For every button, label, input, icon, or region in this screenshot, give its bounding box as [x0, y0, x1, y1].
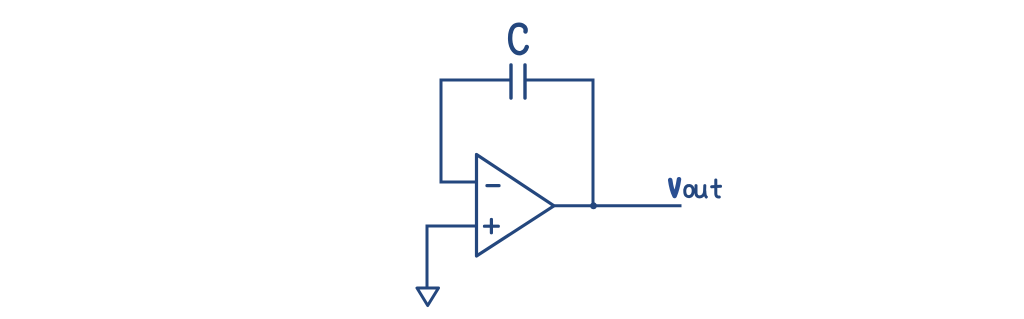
wire: inverting input horizontal — [441, 181, 476, 184]
wire: feedback left vertical — [440, 80, 443, 182]
net label Vout : letters out — [685, 180, 721, 197]
wire: feedback right vertical down to output node — [592, 80, 595, 206]
capacitor value label C — [510, 25, 527, 53]
ground symbol — [417, 288, 439, 306]
op-amp minus pin marking — [487, 184, 499, 187]
capacitor C plates — [511, 65, 525, 98]
node: output junction dot — [590, 202, 597, 209]
wire: non-inverting input horizontal — [427, 225, 476, 228]
wire: output horizontal — [554, 204, 680, 207]
wire: vertical to ground — [426, 226, 429, 287]
op-amp U1 triangle — [477, 155, 555, 257]
op-amp plus pin marking — [485, 220, 499, 233]
wire: top horizontal left of capacitor — [441, 79, 511, 82]
net label Vout : letter V — [670, 179, 679, 196]
wire: top horizontal right of capacitor — [525, 79, 593, 82]
